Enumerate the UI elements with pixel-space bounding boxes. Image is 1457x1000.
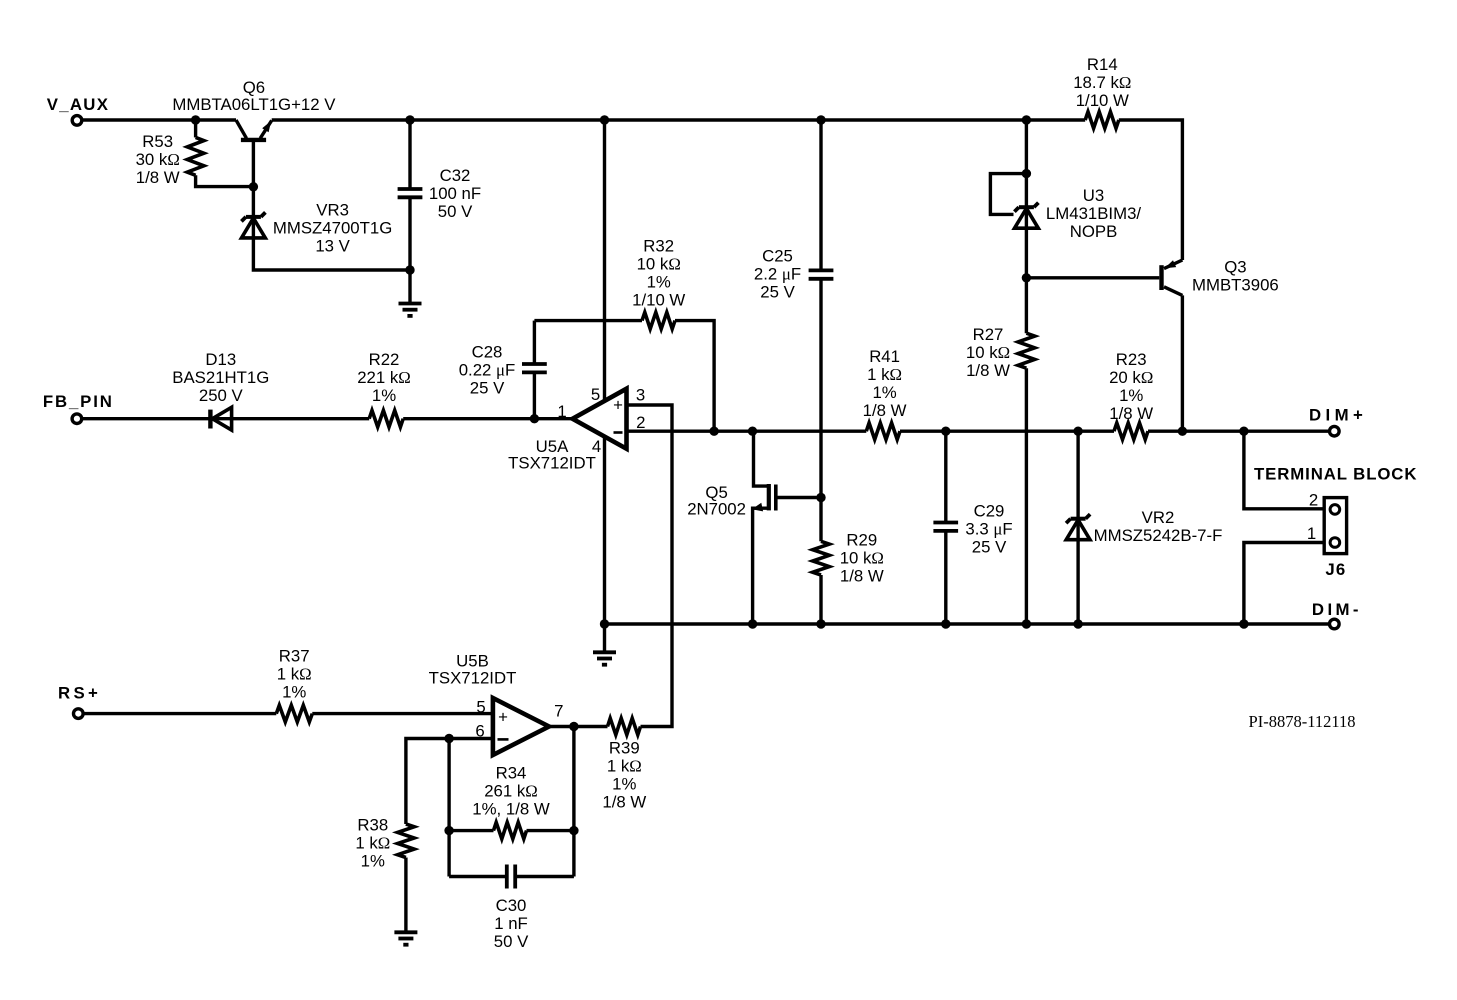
svg-text:10 kΩ: 10 kΩ bbox=[637, 255, 681, 274]
wire VR3 branch bbox=[253, 187, 410, 270]
op-amp U5B bbox=[493, 698, 549, 755]
svg-text:100 nF: 100 nF bbox=[429, 184, 481, 203]
svg-text:Q3: Q3 bbox=[1224, 258, 1246, 277]
node U5B output junction bbox=[569, 722, 578, 731]
svg-text:R37: R37 bbox=[279, 646, 310, 665]
node V_AUX terminal bbox=[72, 116, 82, 126]
transistor Q6 (NPN MMBTA06LT1G) bbox=[236, 120, 247, 138]
svg-text:V_AUX: V_AUX bbox=[47, 95, 109, 114]
transistor Q3 (PNP MMBT3906) bbox=[1159, 265, 1163, 290]
resistor R32 bbox=[642, 312, 675, 329]
svg-text:R29: R29 bbox=[846, 530, 877, 549]
svg-text:25 V: 25 V bbox=[470, 379, 505, 398]
label U5B minus sign bbox=[498, 738, 509, 741]
svg-text:50 V: 50 V bbox=[494, 932, 529, 951]
wire J6 pin2 bbox=[1244, 431, 1324, 509]
svg-text:R27: R27 bbox=[973, 325, 1004, 344]
svg-text:1%, 1/8 W: 1%, 1/8 W bbox=[472, 800, 550, 819]
resistor R39 bbox=[608, 718, 641, 735]
svg-text:TSX712IDT: TSX712IDT bbox=[429, 668, 517, 687]
wire U5B minus input bbox=[406, 739, 493, 825]
node C32 bottom junction bbox=[405, 265, 414, 274]
svg-text:1%: 1% bbox=[647, 273, 671, 292]
capacitor C25 bbox=[819, 120, 822, 270]
node U3 anode junction bbox=[1022, 273, 1031, 282]
svg-text:+: + bbox=[613, 396, 623, 415]
svg-text:0.22 μF: 0.22 μF bbox=[459, 361, 516, 380]
svg-text:1/8 W: 1/8 W bbox=[602, 793, 646, 812]
svg-text:5: 5 bbox=[591, 385, 600, 404]
node mid rail junctions bbox=[709, 427, 718, 436]
transistor Q5 (2N7002) bbox=[754, 431, 769, 486]
connector J6 terminal block bbox=[1324, 498, 1346, 554]
svg-text:C29: C29 bbox=[974, 501, 1005, 520]
svg-text:10 kΩ: 10 kΩ bbox=[966, 343, 1010, 362]
svg-text:7: 7 bbox=[554, 702, 563, 721]
svg-text:30 kΩ: 30 kΩ bbox=[136, 150, 180, 169]
svg-text:RS+: RS+ bbox=[58, 683, 101, 702]
svg-text:1%: 1% bbox=[872, 383, 896, 402]
svg-text:C30: C30 bbox=[496, 896, 527, 915]
node R53 top junction bbox=[191, 115, 200, 124]
svg-text:FB_PIN: FB_PIN bbox=[43, 392, 114, 411]
svg-text:2N7002: 2N7002 bbox=[687, 499, 746, 518]
svg-text:MMSZ5242B-7-F: MMSZ5242B-7-F bbox=[1094, 526, 1223, 545]
svg-text:R38: R38 bbox=[357, 815, 388, 834]
svg-text:50 V: 50 V bbox=[438, 202, 473, 221]
svg-text:PI-8878-112118: PI-8878-112118 bbox=[1249, 712, 1356, 731]
node R34 junctions bbox=[444, 826, 453, 835]
svg-text:3.3 μF: 3.3 μF bbox=[965, 519, 1012, 538]
svg-text:R39: R39 bbox=[609, 739, 640, 758]
svg-text:1%: 1% bbox=[282, 682, 306, 701]
wire U3 ref loop bbox=[990, 174, 1026, 215]
wire U5A supply vertical bbox=[603, 120, 606, 624]
zener VR2 bbox=[1076, 431, 1079, 624]
capacitor C30 bbox=[505, 865, 509, 889]
svg-text:250 V: 250 V bbox=[199, 386, 244, 405]
wire R34 row bbox=[449, 829, 493, 832]
wire R37 to U5B bbox=[312, 712, 493, 715]
svg-text:C25: C25 bbox=[762, 246, 793, 265]
svg-text:R22: R22 bbox=[369, 350, 400, 369]
svg-text:2: 2 bbox=[1309, 491, 1318, 510]
svg-text:1%: 1% bbox=[372, 386, 396, 405]
svg-text:2: 2 bbox=[636, 413, 645, 432]
node RS+ terminal bbox=[74, 709, 84, 719]
svg-text:R23: R23 bbox=[1116, 350, 1147, 369]
wire J6 pin1 bbox=[1244, 543, 1324, 625]
svg-text:1 kΩ: 1 kΩ bbox=[355, 833, 390, 852]
svg-text:20 kΩ: 20 kΩ bbox=[1109, 368, 1153, 387]
svg-text:2.2 μF: 2.2 μF bbox=[754, 264, 801, 283]
node U3 ref junction bbox=[1022, 169, 1031, 178]
wire U5A pin3 to R39 bbox=[627, 405, 673, 727]
node Q5 gate junction bbox=[816, 493, 825, 502]
svg-text:3: 3 bbox=[636, 386, 645, 405]
svg-text:1/8 W: 1/8 W bbox=[1109, 404, 1153, 423]
svg-text:J6: J6 bbox=[1325, 560, 1346, 579]
ground below C32 bbox=[408, 270, 411, 304]
wire U3 cathode vertical bbox=[1025, 120, 1028, 333]
shunt reference U3 bbox=[1019, 205, 1034, 209]
zener VR3 bbox=[246, 215, 261, 219]
svg-text:18.7 kΩ: 18.7 kΩ bbox=[1073, 73, 1131, 92]
capacitor C32 bbox=[408, 120, 411, 188]
wire R32 loop top bbox=[534, 319, 642, 322]
svg-text:R53: R53 bbox=[142, 132, 173, 151]
svg-text:1 kΩ: 1 kΩ bbox=[607, 757, 642, 776]
wire mid rail (DIM+ net) bbox=[627, 430, 867, 433]
wire Q3 base bbox=[1026, 276, 1159, 279]
node C25 top junction bbox=[816, 115, 825, 124]
resistor R22 bbox=[369, 410, 403, 427]
svg-text:5: 5 bbox=[476, 698, 485, 717]
wire U5B output bbox=[549, 725, 608, 728]
resistor R23 bbox=[1114, 423, 1148, 440]
svg-text:TERMINAL BLOCK: TERMINAL BLOCK bbox=[1254, 464, 1417, 483]
node DIM+ terminal bbox=[1330, 426, 1340, 436]
label U5A minus bbox=[614, 431, 623, 434]
svg-text:1/8 W: 1/8 W bbox=[136, 168, 180, 187]
svg-text:BAS21HT1G: BAS21HT1G bbox=[172, 368, 269, 387]
svg-text:DIM-: DIM- bbox=[1312, 600, 1362, 619]
resistor R27 bbox=[1018, 333, 1035, 368]
svg-text:1/10 W: 1/10 W bbox=[1076, 91, 1129, 110]
wire R34 loop left bbox=[447, 739, 450, 877]
wire FB_PIN to R22 bbox=[82, 417, 370, 420]
resistor R34 bbox=[494, 822, 527, 839]
node supply top junction bbox=[600, 115, 609, 124]
svg-text:1%: 1% bbox=[612, 775, 636, 794]
node R14 left junction bbox=[1022, 115, 1031, 124]
resistor R38 bbox=[398, 824, 415, 858]
wire top rail bbox=[272, 118, 1085, 121]
svg-text:R14: R14 bbox=[1087, 55, 1118, 74]
ground below U5A bbox=[603, 624, 606, 652]
wire R34 loop right bbox=[572, 727, 575, 877]
resistor R41 bbox=[866, 423, 900, 440]
node FB_PIN terminal bbox=[72, 414, 82, 424]
svg-text:221 kΩ: 221 kΩ bbox=[357, 368, 411, 387]
svg-text:VR3: VR3 bbox=[316, 201, 349, 220]
svg-text:D13: D13 bbox=[205, 350, 236, 369]
svg-text:C32: C32 bbox=[440, 166, 471, 185]
svg-text:R34: R34 bbox=[496, 764, 527, 783]
svg-text:1/8 W: 1/8 W bbox=[966, 361, 1010, 380]
wire RS+ to R37 bbox=[83, 712, 276, 715]
wire V_AUX to Q6 collector bbox=[82, 118, 236, 121]
svg-text:1/10 W: 1/10 W bbox=[632, 291, 685, 310]
svg-text:1 kΩ: 1 kΩ bbox=[277, 664, 312, 683]
svg-text:R41: R41 bbox=[869, 347, 900, 366]
svg-text:U3: U3 bbox=[1083, 186, 1104, 205]
svg-text:MMBT3906: MMBT3906 bbox=[1192, 276, 1279, 295]
svg-text:6: 6 bbox=[475, 722, 484, 741]
resistor R29 bbox=[819, 498, 822, 542]
svg-text:1: 1 bbox=[1307, 524, 1316, 543]
ground below R38 bbox=[394, 930, 417, 934]
svg-text:+: + bbox=[498, 708, 508, 727]
resistor R14 bbox=[1085, 112, 1119, 129]
svg-text:1%: 1% bbox=[1119, 386, 1143, 405]
node DIM- terminal bbox=[1330, 619, 1340, 629]
svg-text:10 kΩ: 10 kΩ bbox=[840, 548, 884, 567]
wire Q5 gate bbox=[776, 496, 821, 499]
svg-text:MMBTA06LT1G+12 V: MMBTA06LT1G+12 V bbox=[172, 95, 336, 114]
diode D13 (BAS21HT1G) bbox=[208, 410, 212, 429]
svg-text:NOPB: NOPB bbox=[1070, 222, 1118, 241]
svg-text:VR2: VR2 bbox=[1142, 508, 1175, 527]
op-amp U5A bbox=[573, 389, 627, 449]
resistor R37 bbox=[276, 705, 312, 722]
svg-text:1 kΩ: 1 kΩ bbox=[867, 365, 902, 384]
svg-text:25 V: 25 V bbox=[972, 537, 1007, 556]
node U5B minus junction bbox=[444, 734, 453, 743]
svg-text:C28: C28 bbox=[472, 343, 503, 362]
node Q6 base junction bbox=[249, 182, 258, 191]
svg-text:25 V: 25 V bbox=[760, 282, 795, 301]
capacitor C29 bbox=[944, 431, 947, 521]
svg-text:1/8 W: 1/8 W bbox=[840, 566, 884, 585]
wire C30 bottom bbox=[449, 875, 506, 878]
svg-text:LM431BIM3/: LM431BIM3/ bbox=[1046, 204, 1141, 223]
svg-text:R32: R32 bbox=[643, 237, 674, 256]
capacitor C28 bbox=[533, 374, 536, 419]
svg-text:MMSZ4700T1G: MMSZ4700T1G bbox=[273, 219, 392, 238]
svg-text:13 V: 13 V bbox=[315, 237, 350, 256]
node C28 output junction bbox=[530, 414, 539, 423]
svg-text:TSX712IDT: TSX712IDT bbox=[508, 454, 596, 473]
svg-text:1/8 W: 1/8 W bbox=[863, 401, 907, 420]
node C32 top junction bbox=[405, 115, 414, 124]
wire bottom rail (DIM- net) bbox=[605, 622, 1330, 625]
svg-text:1 nF: 1 nF bbox=[494, 914, 528, 933]
svg-text:1: 1 bbox=[557, 402, 566, 421]
svg-text:1%: 1% bbox=[361, 851, 385, 870]
node bottom rail junctions bbox=[600, 619, 609, 628]
wire R22 to U5A output bbox=[403, 417, 572, 420]
resistor R53 bbox=[194, 120, 197, 137]
svg-text:DIM+: DIM+ bbox=[1309, 406, 1367, 425]
svg-text:261 kΩ: 261 kΩ bbox=[484, 782, 538, 801]
